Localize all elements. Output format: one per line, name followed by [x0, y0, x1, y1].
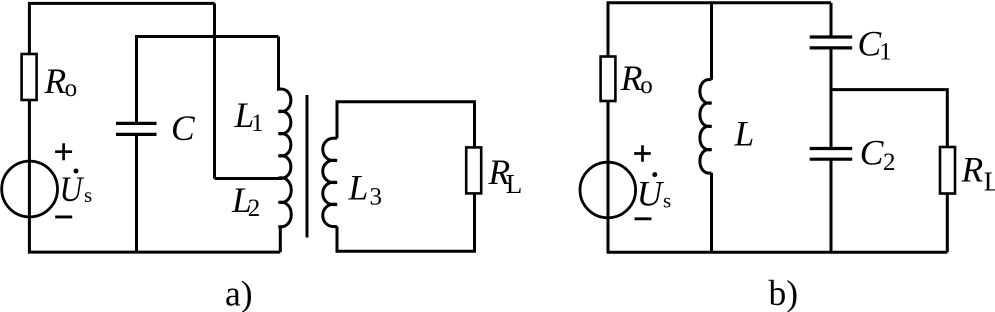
wire: circuit a top wire: [28, 2, 215, 5]
transformer core bar: [306, 95, 309, 238]
svg-text:L: L: [984, 167, 995, 197]
resistor RL (a) body: [466, 147, 481, 193]
wire: circuit a middle vertical from top wire down to transformer tap: [213, 3, 216, 178]
voltage source Us circle (b): [580, 162, 636, 218]
wire: circuit b left rail: [607, 2, 610, 252]
wire: below C2 to bottom wire: [830, 160, 833, 253]
svg-text:o: o: [640, 72, 653, 99]
wire: circuit a bottom wire: [28, 251, 280, 254]
svg-text:R: R: [961, 150, 984, 190]
wire: circuit b top wire: [607, 1, 831, 4]
svg-text:U: U: [60, 169, 85, 209]
inductor L (4 loops): [700, 79, 712, 173]
svg-text:C: C: [860, 133, 884, 173]
voltage source Us circle (a): [2, 161, 58, 217]
wire: secondary loop top (from L3 top to RL top): [337, 102, 475, 147]
plus sign of source (a): [55, 143, 72, 160]
svg-text:2: 2: [883, 149, 896, 176]
wire: circuit a left rail (top to bottom): [28, 2, 31, 252]
wire: circuit b bottom wire: [607, 251, 948, 254]
svg-text:C: C: [171, 108, 195, 148]
svg-text:2: 2: [248, 195, 260, 222]
svg-text:L: L: [348, 168, 369, 208]
inductor L branch bottom wire: [710, 173, 713, 252]
wire: C1 branch above plates: [830, 3, 833, 37]
wire: capacitor C branch above plates plus second horizontal wire: [137, 37, 279, 123]
inductor L3 (secondary winding, 4 loops): [323, 138, 337, 226]
resistor Ro (a) body: [22, 54, 37, 100]
plus sign of source (b): [634, 145, 651, 161]
svg-text:U: U: [637, 173, 665, 213]
svg-text:a): a): [225, 274, 253, 312]
svg-text:b): b): [769, 273, 799, 312]
svg-text:s: s: [663, 189, 671, 213]
inductor L branch top wire: [710, 3, 713, 80]
svg-text:C: C: [858, 24, 882, 64]
wire: RL branch below resistor: [946, 194, 949, 253]
wire: secondary loop bottom (L3 bottom to RL bottom): [337, 193, 475, 251]
wire: capacitor C branch below plates down to bottom wire: [135, 135, 138, 252]
wire: circuit a tap wire into L1/L2 junction: [215, 177, 283, 180]
svg-text:1: 1: [251, 110, 264, 137]
minus sign of source (a): [55, 215, 72, 218]
svg-text:R: R: [620, 58, 643, 98]
svg-text:1: 1: [879, 39, 892, 66]
wire: mid horizontal wire from C1/C2 junction to RL branch: [831, 90, 947, 147]
svg-text:R: R: [44, 61, 67, 101]
svg-text:L: L: [734, 113, 755, 153]
minus sign of source (b): [635, 217, 652, 220]
svg-text:o: o: [65, 75, 78, 102]
resistor RL (b) body: [940, 147, 955, 194]
inductor L2 (lower primary winding, 2 loops) and drop to bottom wire: [279, 178, 292, 252]
svg-text:L: L: [506, 169, 523, 199]
wire: between C1 and C2: [830, 48, 833, 148]
capacitor C plates: [116, 123, 157, 134]
inductor L1 (upper primary winding, 4 loops): [279, 37, 291, 179]
resistor Ro (b) body: [601, 57, 616, 102]
svg-text:3: 3: [370, 184, 383, 211]
svg-text:s: s: [84, 183, 92, 207]
capacitor C2 plates: [810, 149, 853, 160]
capacitor C1 plates: [810, 37, 853, 48]
